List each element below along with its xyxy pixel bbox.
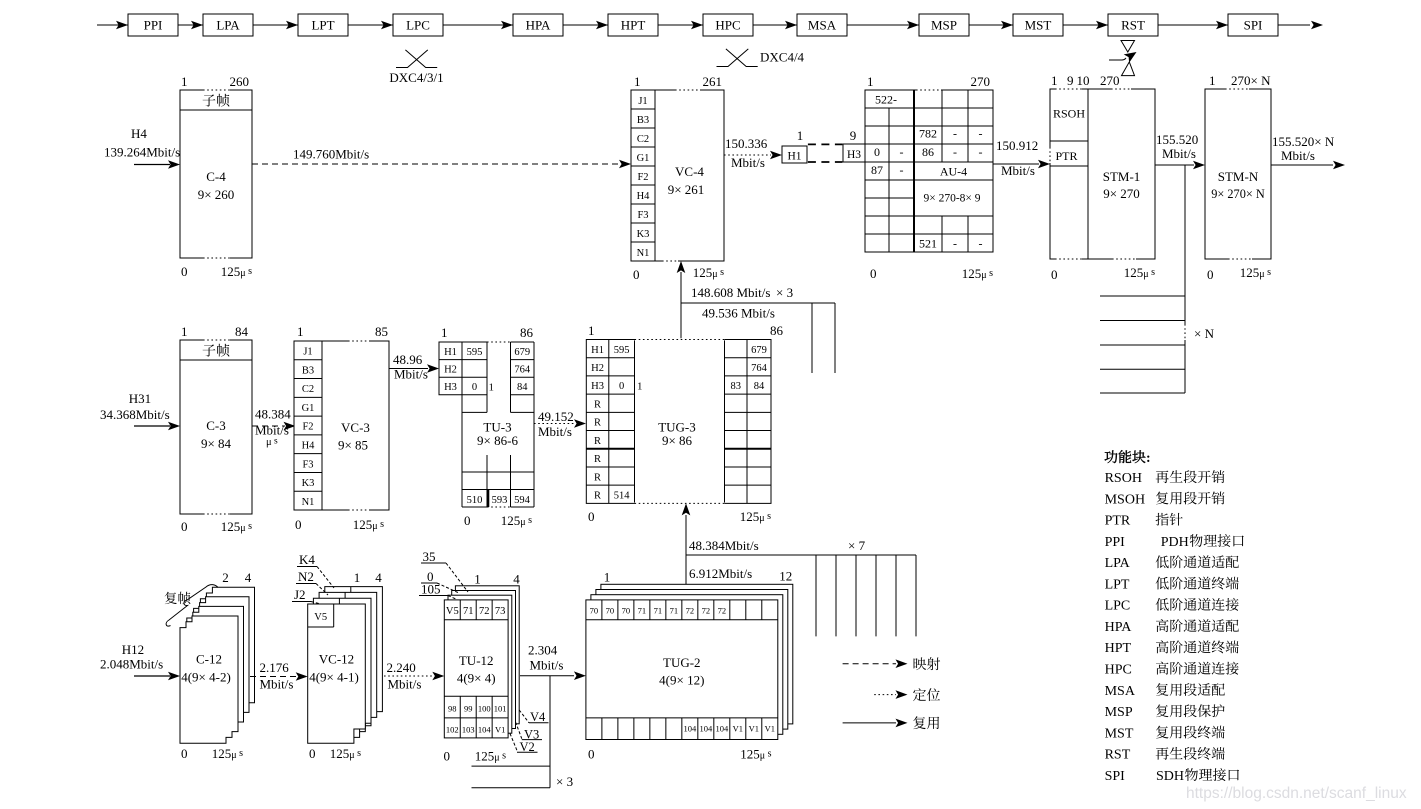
svg-text:4(9× 12): 4(9× 12)	[659, 673, 704, 688]
svg-text:Mbit/s: Mbit/s	[530, 658, 564, 673]
svg-text:514: 514	[614, 490, 631, 501]
svg-text:V1: V1	[765, 724, 775, 734]
svg-text:1: 1	[588, 323, 595, 338]
svg-text:1: 1	[181, 74, 188, 89]
svg-text:K3: K3	[637, 229, 650, 240]
svg-text:V1: V1	[733, 724, 743, 734]
wire STM-1 to STM-N	[1155, 132, 1205, 169]
svg-text:83: 83	[731, 381, 742, 392]
svg-text:Mbit/s: Mbit/s	[538, 424, 572, 439]
svg-text:2.048Mbit/s: 2.048Mbit/s	[100, 657, 163, 672]
svg-text:LPA: LPA	[1105, 556, 1131, 571]
svg-text:104: 104	[478, 725, 492, 735]
svg-text:48.384Mbit/s: 48.384Mbit/s	[689, 538, 759, 553]
svg-text:LPC: LPC	[1105, 599, 1131, 614]
svg-text:H1: H1	[787, 151, 801, 163]
svg-text:6.912Mbit/s: 6.912Mbit/s	[689, 566, 752, 581]
svg-text:125μ s: 125μ s	[1240, 265, 1271, 280]
svg-text:SPI: SPI	[1105, 769, 1126, 784]
svg-text:VC-12: VC-12	[319, 652, 354, 667]
svg-text:9: 9	[1067, 73, 1074, 88]
svg-text:2.304: 2.304	[528, 643, 558, 658]
wire multiplex TUG-3 to VC-4	[677, 261, 793, 340]
wire pointer VC-12 to TU-12	[384, 660, 444, 692]
svg-text:STM-N: STM-N	[1218, 169, 1259, 184]
svg-text:0: 0	[181, 264, 188, 279]
svg-text:1: 1	[441, 325, 448, 340]
wire x3 branch	[681, 303, 835, 373]
svg-text:B3: B3	[302, 365, 314, 376]
svg-text:9× 270-8× 9: 9× 270-8× 9	[923, 193, 980, 205]
svg-text:35: 35	[423, 549, 436, 564]
svg-text:H1: H1	[591, 345, 604, 356]
svg-text:1: 1	[1051, 73, 1058, 88]
svg-text:PPI: PPI	[1105, 535, 1126, 550]
svg-text:RST: RST	[1121, 18, 1145, 33]
svg-text:Mbit/s: Mbit/s	[388, 677, 422, 692]
svg-text:MSA: MSA	[1105, 684, 1136, 699]
svg-text:593: 593	[492, 495, 508, 506]
svg-text:R: R	[594, 436, 601, 447]
wire H12 to C-12	[134, 672, 180, 681]
wire STM-N output	[1271, 134, 1345, 169]
svg-text:100: 100	[478, 704, 491, 714]
block LPC	[381, 14, 443, 36]
svg-text:1: 1	[297, 324, 304, 339]
svg-text:0: 0	[464, 513, 471, 528]
label 35	[421, 549, 468, 592]
grid AU-4	[865, 74, 993, 281]
svg-text:K4: K4	[299, 552, 315, 567]
frame STM-1	[1050, 73, 1155, 282]
svg-text:Mbit/s: Mbit/s	[255, 423, 289, 438]
svg-text:MSA: MSA	[808, 18, 837, 33]
svg-text:-: -	[900, 163, 904, 177]
symbol DXC4/4	[717, 49, 805, 67]
svg-text:0: 0	[444, 749, 451, 764]
svg-text:1: 1	[474, 572, 481, 587]
svg-text:48.384: 48.384	[255, 407, 291, 422]
svg-text:105: 105	[421, 582, 441, 597]
svg-text:V4: V4	[530, 710, 546, 724]
svg-text:125μ s: 125μ s	[212, 746, 243, 761]
svg-text:0: 0	[181, 519, 188, 534]
svg-text:μ s: μ s	[266, 437, 278, 449]
svg-text:12: 12	[779, 569, 792, 584]
frame VC-4	[631, 74, 724, 282]
svg-text:LPT: LPT	[1105, 577, 1130, 592]
svg-text:Mbit/s: Mbit/s	[1281, 148, 1315, 163]
svg-text:4(9× 4-2): 4(9× 4-2)	[181, 670, 231, 685]
svg-text:679: 679	[514, 347, 530, 358]
svg-text:4(9× 4): 4(9× 4)	[457, 671, 496, 686]
cell H3	[843, 128, 865, 162]
svg-text:V1: V1	[749, 724, 759, 734]
svg-text:V2: V2	[520, 740, 535, 754]
svg-text:× N: × N	[1194, 326, 1215, 341]
svg-text:125μ s: 125μ s	[1124, 265, 1155, 280]
svg-text:72: 72	[702, 606, 711, 616]
svg-text:V1: V1	[495, 725, 505, 735]
svg-text:-: -	[979, 145, 983, 159]
svg-text:48.96: 48.96	[393, 352, 423, 367]
svg-text:149.760Mbit/s: 149.760Mbit/s	[293, 147, 369, 162]
svg-text:H4: H4	[302, 441, 316, 452]
svg-text:4(9× 4-1): 4(9× 4-1)	[309, 670, 359, 685]
svg-text:125μ s: 125μ s	[693, 265, 724, 280]
svg-text:N1: N1	[637, 248, 650, 259]
svg-text:0: 0	[295, 517, 302, 532]
svg-text:G1: G1	[637, 153, 650, 164]
svg-text:125μ s: 125μ s	[962, 266, 993, 281]
svg-text:H31: H31	[129, 391, 151, 406]
svg-text:J1: J1	[303, 347, 312, 358]
svg-text:1: 1	[634, 74, 641, 89]
stack TUG-2	[586, 566, 793, 762]
svg-text:9: 9	[850, 128, 857, 143]
legend mapping arrow	[843, 657, 941, 670]
wire mapping C-12 to VC-12	[250, 660, 308, 692]
svg-text:1: 1	[181, 324, 188, 339]
svg-text:139.264Mbit/s: 139.264Mbit/s	[104, 145, 180, 160]
label V4	[519, 710, 548, 724]
svg-text:R: R	[594, 490, 601, 501]
label K4	[297, 552, 334, 588]
svg-text:0: 0	[588, 747, 595, 762]
svg-text:150.336: 150.336	[725, 136, 768, 151]
frame TUG-3	[586, 323, 783, 524]
svg-text:G1: G1	[302, 403, 315, 414]
watermark	[1186, 785, 1407, 802]
svg-text:F3: F3	[637, 210, 648, 221]
symbol DXC4/3/1	[389, 50, 443, 85]
svg-text:H1: H1	[444, 347, 457, 358]
legend pointer arrow	[874, 688, 940, 701]
svg-text:-: -	[953, 145, 957, 159]
frame STM-N	[1205, 73, 1271, 282]
svg-text:270: 270	[971, 74, 991, 89]
svg-text:0: 0	[1207, 267, 1214, 282]
wire top chain	[97, 21, 1323, 30]
svg-text:× 3: × 3	[556, 774, 573, 789]
svg-text:× 3: × 3	[776, 285, 793, 300]
svg-text:125μ s: 125μ s	[501, 513, 532, 528]
svg-text:F3: F3	[302, 459, 313, 470]
svg-text:1: 1	[637, 381, 643, 393]
svg-text:1: 1	[1209, 73, 1216, 88]
legend title	[1105, 450, 1151, 466]
svg-text:N2: N2	[298, 569, 314, 584]
svg-text:270: 270	[1100, 73, 1120, 88]
wire VC-3 to TU-3	[389, 352, 439, 382]
svg-text:70: 70	[590, 606, 599, 616]
wire AU-4 to STM-1	[993, 138, 1050, 178]
svg-text:9× 85: 9× 85	[338, 438, 368, 453]
svg-text:SDH: SDH	[1156, 769, 1184, 784]
svg-text:MSOH: MSOH	[1105, 492, 1145, 507]
svg-text:10: 10	[1077, 73, 1090, 88]
wire mapping C-3 to VC-3	[252, 407, 296, 449]
svg-text:764: 764	[751, 363, 768, 374]
svg-text:0: 0	[472, 382, 477, 393]
wire x7 branch TUG-2	[686, 538, 916, 636]
svg-text:MSP: MSP	[931, 18, 957, 33]
symbol regenerator	[1109, 41, 1139, 76]
svg-text:TU-12: TU-12	[459, 653, 494, 668]
block HPA	[501, 14, 563, 36]
label 105	[419, 582, 457, 600]
svg-text:104: 104	[699, 724, 713, 734]
svg-text:PPI: PPI	[144, 18, 163, 33]
svg-text:HPA: HPA	[1105, 620, 1133, 635]
svg-text:H12: H12	[122, 642, 144, 657]
svg-text:9× 260: 9× 260	[198, 187, 235, 202]
block LPA	[191, 14, 253, 36]
svg-text:595: 595	[467, 347, 483, 358]
block RST	[1096, 14, 1158, 36]
wire H1 to H3 pointer	[808, 144, 843, 162]
wire mapping C-4 to VC-4	[252, 147, 631, 169]
svg-text:71: 71	[638, 606, 647, 616]
svg-text:0: 0	[1051, 267, 1058, 282]
svg-text:99: 99	[464, 704, 473, 714]
svg-text:Mbit/s: Mbit/s	[1001, 163, 1035, 178]
svg-text:H2: H2	[444, 365, 457, 376]
svg-text:125μ s: 125μ s	[353, 517, 384, 532]
svg-text:86: 86	[520, 325, 534, 340]
svg-text:764: 764	[514, 365, 531, 376]
label H12 input	[100, 642, 163, 672]
svg-text:86: 86	[770, 323, 784, 338]
label H4 input	[104, 126, 180, 160]
frame C-3	[180, 324, 252, 534]
svg-text:125μ s: 125μ s	[740, 747, 771, 762]
svg-text:RST: RST	[1105, 748, 1131, 763]
svg-text:C-12: C-12	[196, 652, 222, 667]
svg-text:LPA: LPA	[216, 18, 240, 33]
svg-text:-: -	[979, 237, 983, 251]
svg-text:C2: C2	[637, 134, 649, 145]
svg-text:H4: H4	[131, 126, 147, 141]
svg-text:49.536 Mbit/s: 49.536 Mbit/s	[702, 306, 775, 321]
svg-text:270× N: 270× N	[1231, 73, 1271, 88]
svg-text:R: R	[594, 399, 601, 410]
svg-text:9× 270× N: 9× 270× N	[1211, 187, 1265, 201]
svg-text:34.368Mbit/s: 34.368Mbit/s	[100, 407, 170, 422]
wire H4 to C-4	[134, 160, 180, 169]
legend multiplex arrow	[843, 716, 940, 729]
svg-text:PDH: PDH	[1161, 535, 1189, 550]
svg-text:125μ s: 125μ s	[221, 519, 252, 534]
svg-text:-: -	[979, 127, 983, 141]
wire TU-12 to TUG-2	[520, 643, 586, 681]
svg-text:155.520: 155.520	[1156, 132, 1198, 147]
svg-text:J2: J2	[294, 587, 306, 602]
svg-text:H2: H2	[591, 363, 604, 374]
svg-text:155.520× N: 155.520× N	[1272, 134, 1335, 149]
svg-text:1: 1	[489, 382, 495, 394]
svg-text:148.608 Mbit/s: 148.608 Mbit/s	[691, 285, 770, 300]
svg-text:R: R	[594, 418, 601, 429]
svg-text:0: 0	[181, 746, 188, 761]
svg-text:84: 84	[235, 324, 249, 339]
frame C-4	[180, 74, 252, 279]
svg-text:101: 101	[494, 704, 507, 714]
block LPT	[286, 14, 348, 36]
block MST	[1001, 14, 1063, 36]
block PPI	[116, 14, 178, 36]
svg-text:-: -	[953, 127, 957, 141]
svg-text:522-: 522-	[875, 93, 897, 107]
label 0 pointer	[421, 569, 459, 593]
svg-text:MST: MST	[1025, 18, 1052, 33]
frame TU-3	[439, 325, 534, 528]
label multiframe	[165, 585, 218, 627]
svg-text:-: -	[900, 145, 904, 159]
svg-text:0: 0	[633, 267, 640, 282]
svg-text:H4: H4	[637, 191, 651, 202]
svg-text:521: 521	[919, 237, 937, 251]
svg-text:2.176: 2.176	[260, 660, 290, 675]
svg-text:V5: V5	[446, 606, 459, 617]
block SPI	[1216, 14, 1278, 36]
svg-text:C2: C2	[302, 384, 314, 395]
svg-text:594: 594	[514, 495, 531, 506]
svg-text:HPT: HPT	[621, 18, 646, 33]
svg-text:782: 782	[919, 127, 937, 141]
svg-text::: :	[1146, 451, 1151, 466]
svg-text:1: 1	[867, 74, 874, 89]
svg-text:HPT: HPT	[1105, 641, 1132, 656]
stack C-12	[180, 570, 255, 761]
svg-text:73: 73	[495, 606, 506, 617]
svg-text:72: 72	[686, 606, 695, 616]
wire x3 branch TU-12	[472, 676, 574, 789]
svg-text:103: 103	[462, 725, 475, 735]
svg-text:9× 270: 9× 270	[1103, 186, 1140, 201]
svg-text:LPC: LPC	[406, 18, 430, 33]
svg-text:150.912: 150.912	[996, 138, 1038, 153]
svg-text:71: 71	[670, 606, 679, 616]
svg-text:MST: MST	[1105, 726, 1134, 741]
svg-text:PTR: PTR	[1055, 149, 1077, 163]
stack VC-12	[308, 570, 383, 761]
svg-text:510: 510	[467, 495, 483, 506]
svg-text:0: 0	[588, 509, 595, 524]
svg-text:595: 595	[614, 345, 630, 356]
svg-text:STM-1: STM-1	[1103, 169, 1141, 184]
svg-text:9× 261: 9× 261	[668, 182, 705, 197]
svg-text:0: 0	[619, 381, 624, 392]
label V3	[516, 722, 543, 742]
svg-text:H3: H3	[847, 149, 861, 161]
svg-text:260: 260	[230, 74, 250, 89]
svg-text:125μ s: 125μ s	[475, 749, 506, 764]
svg-text:104: 104	[683, 724, 697, 734]
svg-text:679: 679	[751, 345, 767, 356]
legend function blocks	[1105, 470, 1244, 784]
svg-text:4: 4	[245, 570, 252, 585]
svg-text:C-3: C-3	[206, 418, 226, 433]
svg-text:2: 2	[222, 570, 229, 585]
svg-text:HPA: HPA	[526, 18, 551, 33]
wire multiplex TUG-2 to TUG-3	[682, 503, 691, 584]
svg-text:R: R	[594, 472, 601, 483]
svg-text:261: 261	[703, 74, 723, 89]
svg-text:J1: J1	[638, 96, 647, 107]
svg-text:4: 4	[375, 570, 382, 585]
svg-text:87: 87	[871, 163, 883, 177]
svg-text:98: 98	[448, 704, 457, 714]
svg-text:84: 84	[517, 382, 528, 393]
svg-text:4: 4	[513, 572, 520, 587]
svg-text:VC-3: VC-3	[341, 420, 370, 435]
label N2	[296, 569, 328, 595]
svg-text:V5: V5	[314, 612, 327, 623]
label J2	[292, 587, 319, 604]
svg-text:70: 70	[622, 606, 631, 616]
svg-text:125μ s: 125μ s	[740, 509, 771, 524]
svg-text:Mbit/s: Mbit/s	[260, 677, 294, 692]
svg-text:9× 84: 9× 84	[201, 436, 232, 451]
svg-text:RSOH: RSOH	[1105, 471, 1142, 486]
svg-text:0: 0	[870, 266, 877, 281]
svg-text:DXC4/4: DXC4/4	[760, 50, 805, 65]
cell H1	[782, 128, 807, 163]
label H31 input	[100, 391, 170, 422]
svg-text:× 7: × 7	[848, 538, 866, 553]
svg-text:HPC: HPC	[715, 18, 740, 33]
svg-text:0: 0	[309, 746, 316, 761]
svg-text:H3: H3	[444, 382, 457, 393]
svg-text:N1: N1	[302, 497, 315, 508]
svg-text:MSP: MSP	[1105, 705, 1133, 720]
svg-text:Mbit/s: Mbit/s	[1162, 146, 1196, 161]
svg-text:125μ s: 125μ s	[330, 746, 361, 761]
svg-text:LPT: LPT	[311, 18, 334, 33]
svg-text:DXC4/3/1: DXC4/3/1	[389, 70, 443, 85]
svg-text:1: 1	[604, 570, 611, 585]
svg-text:85: 85	[375, 324, 388, 339]
svg-text:1: 1	[797, 128, 804, 143]
block MSP	[907, 14, 969, 36]
svg-text:VC-4: VC-4	[675, 164, 704, 179]
svg-text:72: 72	[479, 606, 490, 617]
svg-text:86: 86	[922, 145, 934, 159]
block MSA	[785, 14, 847, 36]
wire H31 to C-3	[134, 422, 180, 431]
svg-text:71: 71	[654, 606, 663, 616]
svg-text:Mbit/s: Mbit/s	[731, 155, 765, 170]
stack TU-12	[444, 572, 521, 764]
svg-text:F2: F2	[302, 422, 313, 433]
svg-text:RSOH: RSOH	[1053, 107, 1085, 121]
svg-text:F2: F2	[637, 172, 648, 183]
svg-text:0: 0	[874, 145, 880, 159]
svg-text:72: 72	[718, 606, 727, 616]
svg-text:H3: H3	[591, 381, 604, 392]
svg-text:PTR: PTR	[1105, 514, 1131, 529]
svg-text:TUG-2: TUG-2	[663, 655, 701, 670]
stack STM-1 xN frames	[1100, 165, 1215, 393]
svg-text:9× 86-6: 9× 86-6	[477, 433, 518, 448]
svg-text:AU-4: AU-4	[940, 165, 967, 179]
block HPT	[596, 14, 658, 36]
block HPC	[691, 14, 753, 36]
svg-text:70: 70	[606, 606, 615, 616]
svg-text:C-4: C-4	[206, 169, 226, 184]
svg-text:102: 102	[446, 725, 459, 735]
